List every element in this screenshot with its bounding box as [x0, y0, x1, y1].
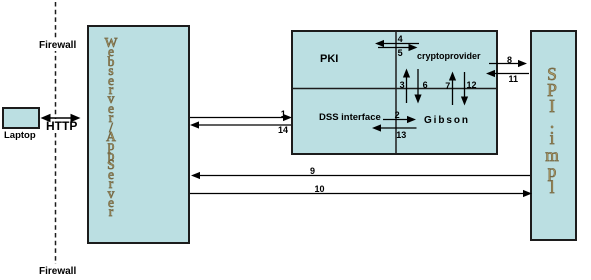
label 5 [398, 49, 403, 58]
label HTTP [45, 119, 78, 133]
arrow 13 (Gibson to DSS interface) [372, 124, 417, 131]
box Webserver/AppServer [87, 25, 190, 244]
label 12 [467, 81, 477, 90]
arrow 5 (right, PKI) [378, 44, 418, 51]
divider horizontal (middle box) [291, 88, 498, 90]
label Laptop [4, 130, 36, 141]
label 9 [310, 167, 315, 176]
label Firewall (top) [38, 40, 77, 51]
arrow 2 (DSS interface to Gibson) [383, 116, 416, 123]
arrow 9 (SPI to Webserver) [191, 172, 530, 179]
label 11 [509, 75, 519, 84]
label 1 [281, 110, 286, 119]
arrow 7 (up) [449, 72, 456, 106]
arrow 8 (cryptoprovider to SPI) [489, 60, 527, 67]
label Gibson [424, 115, 470, 126]
label cryptoprovider [417, 51, 481, 61]
label 7 [445, 82, 450, 91]
divider vertical (middle box) [395, 30, 397, 155]
label 14 [278, 126, 288, 135]
arrow 4 (left, PKI) [375, 40, 419, 47]
label 2 [395, 111, 400, 120]
arrow 14 (DSS to Webserver) [190, 121, 291, 128]
arrow 11 (SPI to cryptoprovider) [486, 70, 529, 77]
label 3 [400, 81, 405, 90]
box Laptop [2, 107, 40, 129]
arrow 10 (Webserver to SPI) [190, 190, 532, 197]
label Firewall (bottom) [38, 266, 77, 277]
arrow 3 (up) [403, 69, 410, 104]
label 10 [315, 185, 325, 194]
label DSS interface [319, 112, 381, 123]
arrow 1 (Webserver to DSS) [190, 114, 292, 121]
label 13 [396, 131, 406, 140]
label 8 [507, 56, 512, 65]
box SPI impl [530, 30, 577, 241]
arrow 6 (down) [414, 69, 421, 104]
arrow 12 (down) [461, 72, 468, 106]
label 4 [398, 35, 403, 44]
label PKI [320, 53, 338, 65]
box PKI/DSS module [291, 30, 498, 155]
vertical text Webserver/AppServer [97, 38, 125, 217]
arrow HTTP (double-headed) [41, 114, 81, 122]
vertical text SPI impl [539, 66, 565, 196]
label 6 [423, 81, 428, 90]
